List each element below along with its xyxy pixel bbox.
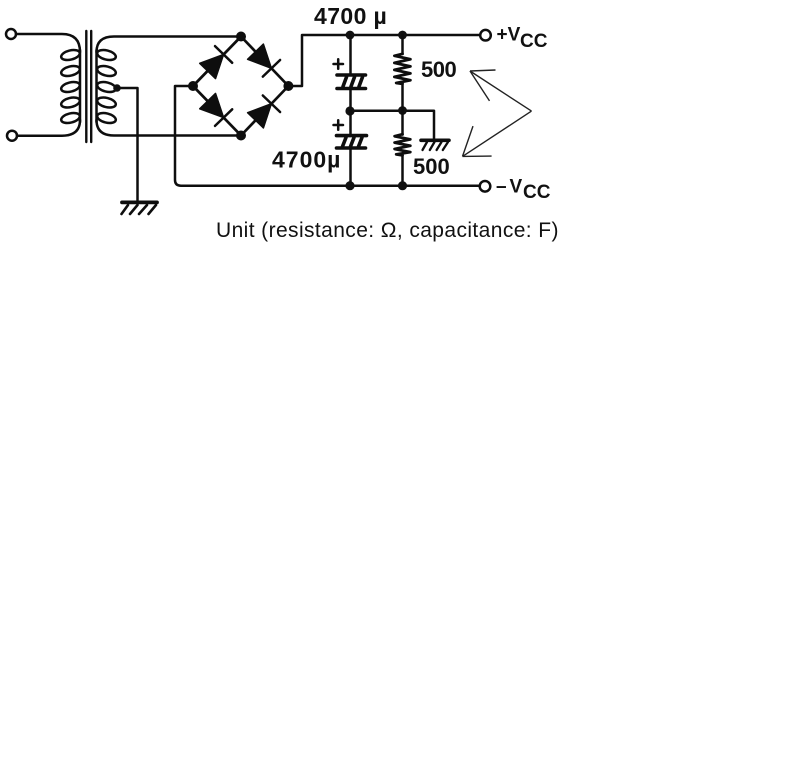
node minus rail / C2 bbox=[345, 181, 354, 190]
wire plus rail bbox=[350, 34, 480, 37]
net label -Vcc bbox=[496, 177, 551, 204]
transformer T1 core bbox=[86, 31, 91, 142]
svg-text:V: V bbox=[510, 177, 523, 198]
diode D1 (left to top arm) bbox=[200, 54, 224, 78]
wire secondary top to bridge top bbox=[97, 37, 242, 53]
svg-text:–: – bbox=[496, 177, 507, 198]
wire minus rail bbox=[350, 184, 480, 187]
svg-text:4700 µ: 4700 µ bbox=[314, 3, 387, 29]
wire middle rail to ground stub bbox=[403, 111, 435, 139]
node middle rail / R2 bbox=[398, 106, 407, 115]
annotation arrow upper (points to R1) bbox=[470, 70, 532, 111]
node bridge bottom bbox=[236, 131, 246, 141]
net label +Vcc bbox=[497, 25, 548, 53]
terminal circle +Vcc bbox=[480, 30, 491, 41]
resistor R1 (500) bbox=[394, 54, 410, 84]
annotation arrow lower (points to R2) bbox=[463, 111, 532, 156]
svg-text:CC: CC bbox=[520, 31, 548, 52]
capacitor C2 (4700u) bbox=[337, 136, 367, 148]
resistor R2 (500) bbox=[395, 134, 411, 155]
node center tap dot bbox=[113, 84, 121, 92]
node minus rail / R2 bbox=[398, 181, 407, 190]
wire R2 bottom lead bbox=[401, 155, 404, 185]
diode D2 (top to right arm) bbox=[248, 44, 272, 68]
wire C1 top lead bbox=[349, 35, 352, 73]
wire secondary bottom to bridge bottom bbox=[97, 120, 242, 136]
terminal circle, primary input bottom bbox=[7, 131, 17, 141]
svg-text:CC: CC bbox=[523, 182, 551, 203]
polarity plus sign of C2 bbox=[334, 120, 344, 129]
svg-text:Unit (resistance: Ω, capacitan: Unit (resistance: Ω, capacitance: F) bbox=[216, 219, 559, 242]
svg-text:4700µ: 4700µ bbox=[272, 147, 341, 173]
wire R2 top lead bbox=[401, 111, 404, 135]
wire R1 bottom lead bbox=[401, 84, 404, 111]
wire R1 top lead bbox=[401, 35, 404, 54]
wire C2 bottom lead bbox=[349, 150, 352, 186]
wire primary top lead bbox=[16, 34, 80, 52]
terminal circle -Vcc bbox=[480, 181, 491, 192]
wire bridge left to minus rail bbox=[175, 86, 350, 186]
wire bridge right to plus rail bbox=[288, 35, 350, 86]
node bridge right bbox=[283, 81, 293, 91]
node plus rail / R1 bbox=[398, 31, 407, 40]
node middle rail / C2 bbox=[345, 106, 354, 115]
node plus rail / C1 bbox=[346, 31, 355, 40]
wire C2 top lead bbox=[349, 111, 352, 134]
wire middle rail C1 to R1 bbox=[350, 110, 403, 113]
ground symbol (transformer center tap) bbox=[122, 202, 158, 214]
capacitor C1 (4700u) bbox=[337, 75, 366, 89]
wire center tap to ground bbox=[117, 88, 138, 201]
wire C1 bottom lead bbox=[349, 90, 352, 111]
transformer T1 primary winding bbox=[60, 48, 81, 125]
diode D4 (bottom to right arm) bbox=[248, 104, 272, 128]
ground symbol (middle rail) bbox=[421, 140, 449, 150]
wire primary bottom lead bbox=[17, 120, 80, 136]
node bridge left bbox=[188, 81, 198, 91]
transformer T1 secondary winding bbox=[96, 48, 117, 125]
node bridge top bbox=[236, 32, 246, 42]
svg-text:+V: +V bbox=[497, 25, 521, 46]
polarity plus sign of C1 bbox=[334, 59, 344, 68]
diode D3 (left to bottom arm) bbox=[200, 93, 224, 117]
svg-text:500: 500 bbox=[413, 154, 450, 179]
svg-text:500: 500 bbox=[421, 57, 456, 82]
bridge rectifier diamond wires bbox=[193, 37, 288, 136]
terminal circle, primary input top bbox=[6, 29, 16, 39]
